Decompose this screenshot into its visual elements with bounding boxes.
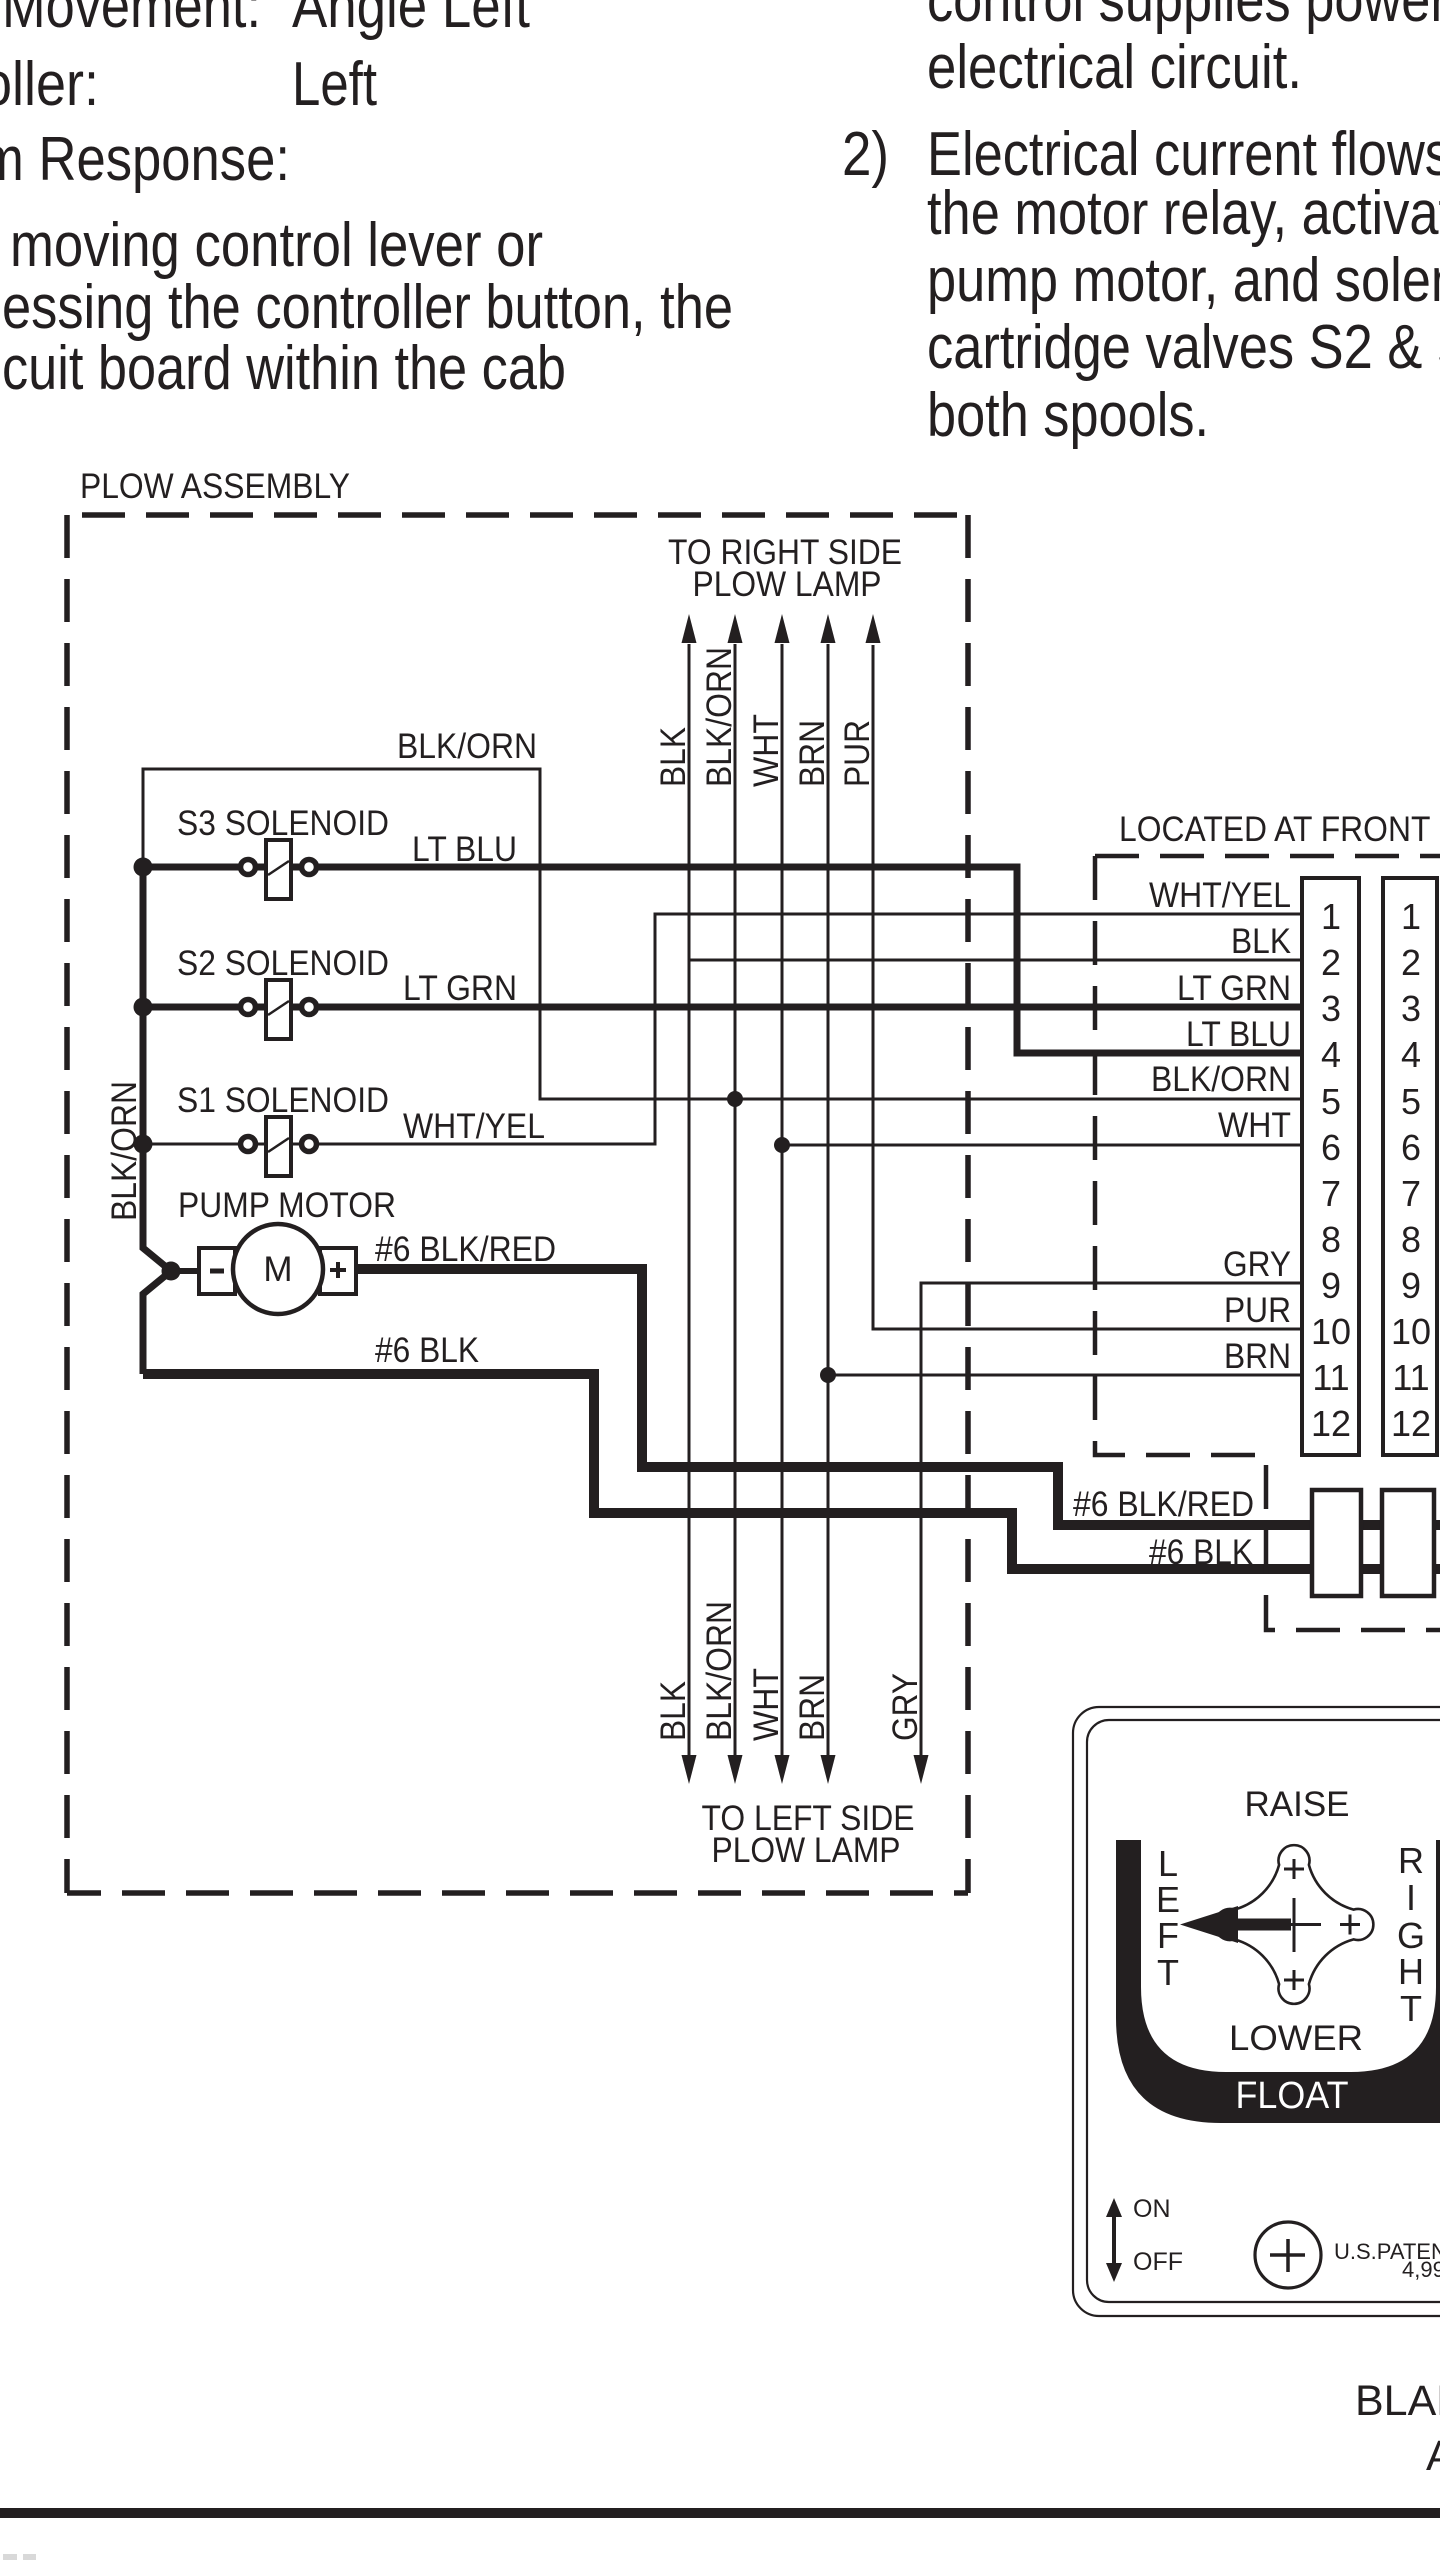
joystick button clover — [1215, 1845, 1374, 2004]
minus sign — [210, 1269, 224, 1274]
svg-text:8: 8 — [1321, 1219, 1341, 1260]
svg-text:ON: ON — [1133, 2195, 1171, 2223]
solenoid S3 — [241, 840, 317, 899]
svg-text:10: 10 — [1311, 1311, 1351, 1352]
arrowhead GRY down to left plow lamp — [914, 1755, 929, 1784]
svg-text:9: 9 — [1321, 1265, 1341, 1306]
hand controller inner face — [1087, 1720, 1440, 2302]
svg-text:F: F — [1157, 1915, 1179, 1956]
svg-text:L: L — [1158, 1843, 1178, 1884]
wire BLK/ORN left bus (thick) with chevron to motor — [143, 864, 171, 1374]
battery cable connector vehicle side — [1382, 1490, 1434, 1596]
svg-text:4,993,919: 4,993,919 — [1402, 2257, 1440, 2282]
node S3 bus junction — [134, 858, 153, 877]
svg-text:G: G — [1397, 1915, 1425, 1956]
svg-text:moving control lever or: moving control lever or — [10, 211, 543, 280]
svg-text:BLK/ORN: BLK/ORN — [397, 727, 537, 766]
svg-text:the motor relay, activating: the motor relay, activating — [927, 179, 1440, 248]
svg-text:Angle Left: Angle Left — [292, 0, 530, 41]
svg-text:S3 SOLENOID: S3 SOLENOID — [177, 804, 389, 843]
svg-text:I: I — [1406, 1877, 1416, 1918]
svg-text:BRN: BRN — [793, 720, 832, 787]
svg-text:LOCATED AT FRONT OF VEHICLE: LOCATED AT FRONT OF VEHICLE — [1119, 810, 1440, 849]
wire BLK to pin 2 — [690, 959, 1302, 962]
hand controller outer case — [1073, 1707, 1440, 2316]
svg-text:4: 4 — [1401, 1034, 1421, 1075]
svg-text:T: T — [1400, 1988, 1422, 2029]
svg-text:electrical circuit.: electrical circuit. — [927, 33, 1302, 102]
svg-text:FLOAT: FLOAT — [1236, 2075, 1349, 2117]
arrowhead BLK up to right plow lamp — [682, 614, 697, 643]
wire #6 BLK/RED motor positive to vehicle connector (thick) — [356, 1269, 1440, 1525]
svg-text:4: 4 — [1321, 1034, 1341, 1075]
svg-text:#6 BLK/RED: #6 BLK/RED — [1073, 1485, 1254, 1524]
svg-text:E: E — [1156, 1879, 1180, 1920]
plow assembly dashed enclosure left edge — [64, 515, 70, 1893]
svg-text:WHT/YEL: WHT/YEL — [1149, 876, 1291, 915]
svg-text:11: 11 — [1312, 1357, 1349, 1398]
solenoid S2 — [241, 980, 317, 1039]
node WHT junction pin 6 — [774, 1137, 790, 1153]
svg-text:#6 BLK: #6 BLK — [1149, 1533, 1253, 1572]
svg-text:3: 3 — [1401, 988, 1421, 1029]
wire BLK/ORN vertical to plow lamps — [734, 644, 737, 1755]
svg-text:m Response:: m Response: — [0, 125, 290, 194]
svg-text:oller:: oller: — [0, 50, 99, 119]
center crosshair — [1268, 1898, 1321, 1952]
svg-text:BLK/ORN: BLK/ORN — [1151, 1060, 1291, 1099]
svg-text:T: T — [1157, 1952, 1179, 1993]
svg-text:WHT: WHT — [1218, 1106, 1291, 1145]
button plus top — [1284, 1859, 1304, 1879]
arrowhead WHT up to right plow lamp — [775, 614, 790, 643]
button plus bottom — [1284, 1970, 1304, 1990]
svg-text:6: 6 — [1401, 1127, 1421, 1168]
wire BRN vertical to plow lamps — [827, 644, 830, 1755]
svg-text:AN: AN — [1426, 2432, 1440, 2480]
wire stub bus to motor minus — [171, 1268, 202, 1274]
svg-text:PLOW LAMP: PLOW LAMP — [712, 1831, 901, 1870]
arrowhead WHT down to left plow lamp — [775, 1755, 790, 1784]
svg-text:both spools.: both spools. — [927, 381, 1209, 450]
svg-text:9: 9 — [1401, 1265, 1421, 1306]
svg-text:Left: Left — [292, 50, 377, 119]
svg-text:2): 2) — [842, 120, 889, 189]
wire WHT/YEL from S1 up to pin 1 — [143, 914, 1302, 1144]
arrowhead BRN down to left plow lamp — [821, 1755, 836, 1784]
wire GRY to pin 9 — [921, 1283, 1302, 1756]
svg-text:S2 SOLENOID: S2 SOLENOID — [177, 944, 389, 983]
svg-text:5: 5 — [1321, 1081, 1341, 1122]
plus sign — [330, 1268, 346, 1272]
joystick gate black U outline — [1116, 1840, 1440, 2123]
arrowhead BRN up to right plow lamp — [821, 614, 836, 643]
wire LT BLU from S3 to pin 4 (thick) — [143, 867, 1302, 1053]
motor plus terminal — [320, 1248, 356, 1294]
svg-text:PUR: PUR — [838, 720, 877, 787]
svg-text:WHT: WHT — [747, 714, 786, 787]
wire BRN to pin 11 — [828, 1374, 1302, 1377]
solenoid S1 — [241, 1117, 317, 1176]
svg-text:PUMP MOTOR: PUMP MOTOR — [178, 1186, 396, 1225]
button plus right — [1340, 1915, 1360, 1935]
svg-text:LT GRN: LT GRN — [1177, 969, 1291, 1008]
battery cable connector plow side — [1312, 1490, 1361, 1596]
svg-text:GRY: GRY — [1223, 1245, 1291, 1284]
wire WHT to pin 6 — [782, 1144, 1302, 1147]
svg-text:#6 BLK: #6 BLK — [375, 1331, 479, 1370]
svg-text:cuit board within the cab: cuit board within the cab — [2, 334, 566, 403]
arrowhead BLK/ORN down to left plow lamp — [728, 1755, 743, 1784]
svg-text:R: R — [1398, 1840, 1424, 1881]
svg-text:OFF: OFF — [1133, 2248, 1183, 2276]
svg-text:PUR: PUR — [1224, 1291, 1291, 1330]
svg-text:LOWER: LOWER — [1229, 2019, 1363, 2058]
svg-text:2: 2 — [1321, 942, 1341, 983]
arrowhead BLK down to left plow lamp — [682, 1755, 697, 1784]
svg-text:3: 3 — [1321, 988, 1341, 1029]
wire PUR to pin 10 — [873, 645, 1302, 1329]
svg-text:Movement:: Movement: — [2, 0, 261, 41]
svg-text:LT BLU: LT BLU — [412, 830, 517, 869]
svg-text:6: 6 — [1321, 1127, 1341, 1168]
ON OFF toggle arrow — [1112, 2214, 1116, 2266]
svg-text:BRN: BRN — [1224, 1337, 1291, 1376]
arrowhead PUR up to right plow lamp — [866, 614, 881, 643]
node S1 bus junction — [134, 1135, 153, 1154]
svg-text:12: 12 — [1391, 1403, 1431, 1444]
svg-text:7: 7 — [1401, 1173, 1421, 1214]
svg-text:1: 1 — [1321, 896, 1341, 937]
wire LT GRN from S2 to pin 3 (thick) — [143, 1004, 1302, 1011]
svg-text:BLK: BLK — [654, 1681, 693, 1741]
svg-text:PLOW LAMP: PLOW LAMP — [693, 565, 882, 604]
svg-text:LT BLU: LT BLU — [1186, 1015, 1291, 1054]
faint cropped footer text — [3, 2554, 17, 2560]
motor minus terminal — [199, 1248, 235, 1294]
svg-text:5: 5 — [1401, 1081, 1421, 1122]
svg-text:#6 BLK/RED: #6 BLK/RED — [375, 1230, 556, 1269]
svg-text:M: M — [263, 1250, 292, 1289]
plow assembly dashed enclosure bottom edge — [67, 1890, 968, 1896]
plow assembly dashed enclosure top edge — [67, 512, 968, 518]
svg-text:BLK: BLK — [1231, 922, 1291, 961]
wire #6 BLK bus to vehicle connector (thick) — [143, 1374, 1440, 1569]
svg-text:BLK/ORN: BLK/ORN — [700, 647, 739, 787]
svg-text:BLK: BLK — [654, 727, 693, 787]
TOPTEXT — [0, 0, 1440, 450]
arrowhead BLK/ORN up to right plow lamp — [728, 614, 743, 643]
pin numbers vehicle side — [1391, 896, 1431, 1444]
node BLK/ORN junction pin 5 — [727, 1091, 743, 1107]
svg-text:10: 10 — [1391, 1311, 1431, 1352]
svg-text:LT GRN: LT GRN — [403, 969, 517, 1008]
plow assembly dashed enclosure right edge — [965, 515, 971, 1893]
label LEFT (vertical) — [1156, 1843, 1180, 1993]
svg-text:BRN: BRN — [793, 1674, 832, 1741]
connector block plow side pins 1-12 — [1302, 878, 1359, 1455]
motor body M — [233, 1224, 323, 1314]
svg-text:BLADE: BLADE — [1355, 2377, 1440, 2425]
svg-text:WHT/YEL: WHT/YEL — [403, 1107, 545, 1146]
svg-text:essing the controller button,: essing the controller button, the — [2, 273, 733, 342]
svg-text:7: 7 — [1321, 1173, 1341, 1214]
patent button circle — [1255, 2222, 1321, 2288]
svg-text:S1 SOLENOID: S1 SOLENOID — [177, 1081, 389, 1120]
dashed boundary at front of vehicle — [1095, 854, 1440, 859]
angle left arrow — [1180, 1906, 1291, 1943]
node motor bus junction — [162, 1262, 181, 1281]
node BRN junction pin 11 — [820, 1367, 836, 1383]
svg-text:1: 1 — [1401, 896, 1421, 937]
connector block vehicle side pins 1-12 — [1383, 878, 1437, 1455]
node S2 bus junction — [134, 998, 153, 1017]
svg-text:8: 8 — [1401, 1219, 1421, 1260]
svg-text:cartridge valves S2 & S3: cartridge valves S2 & S3 — [927, 313, 1440, 382]
svg-text:WHT: WHT — [747, 1668, 786, 1741]
pin numbers plow side — [1311, 896, 1351, 1444]
svg-text:12: 12 — [1311, 1403, 1351, 1444]
svg-text:GRY: GRY — [886, 1673, 925, 1741]
svg-text:BLK/ORN: BLK/ORN — [700, 1601, 739, 1741]
svg-text:PLOW ASSEMBLY: PLOW ASSEMBLY — [80, 467, 350, 506]
svg-text:2: 2 — [1401, 942, 1421, 983]
svg-text:control supplies power to: control supplies power to — [927, 0, 1440, 35]
svg-text:H: H — [1398, 1951, 1424, 1992]
footer rule — [0, 2508, 1440, 2518]
wire BLK vertical to plow lamps — [688, 644, 691, 1755]
svg-text:11: 11 — [1392, 1357, 1429, 1398]
svg-text:pump motor, and solenoid: pump motor, and solenoid — [927, 246, 1440, 315]
svg-text:RAISE: RAISE — [1245, 1785, 1350, 1824]
wire WHT vertical to plow lamps — [781, 644, 784, 1755]
wire BLK/ORN bus feed to pin 5 — [143, 769, 1302, 1099]
label RIGHT (vertical) — [1397, 1840, 1425, 2029]
